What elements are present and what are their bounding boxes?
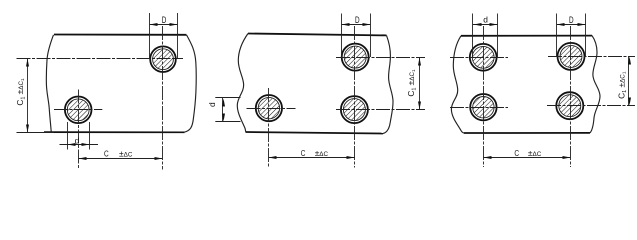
plate 3 top edge [461,35,592,37]
dimension C (panel 2) dimension line with arrows [269,157,355,159]
svg-text:C: C [514,148,519,158]
plate 1 top edge [54,34,187,36]
hole lower-left (panel 3) inner circle with hatch [473,97,494,118]
hole d (panel 2, lower left) outer circle [256,95,282,121]
hole d (panel 3, upper left) outer circle [470,44,497,71]
svg-text:D: D [355,15,360,25]
dimension C (panel 1) dimension line with arrows [79,158,163,160]
centerline horizontal hole d p2 [247,108,296,110]
centerline horizontal lower-right hole p2 / extension for C1 bottom [336,109,425,111]
dimension D (panel 2) extension lines [341,14,343,58]
svg-text:d: d [75,136,80,146]
dimension d (panel 1) extension lines [67,122,69,150]
hole d (panel 1, lower left) outer circle [65,97,92,124]
dimension C1 (panel 2) vertical dimension line with arrows [419,57,421,110]
dimension D (panel 1) dimension line with arrows [150,24,177,26]
hole lower-right (panel 3) outer circle [556,92,583,119]
plate 2 top edge [248,34,387,36]
hole d (panel 1) inner circle with hatch [67,99,89,121]
svg-text:D: D [569,15,574,25]
hole D (panel 1) inner circle with hatch [153,49,174,70]
dimension d (panel 2) dimension line with arrows [222,98,224,121]
plate 1 bottom edge [44,131,185,133]
svg-text:d: d [483,15,488,25]
svg-text:C: C [301,148,306,158]
plate 1 left break edge [46,35,53,132]
plate 3 bottom edge [464,132,590,134]
centerline vertical right holes p3 / extension for C [570,26,572,167]
dimension d (panel 2, vertical at left) extension lines [215,97,240,99]
dimension D (panel 3) dimension line with arrows [557,24,586,26]
hole lower-right (panel 2) outer circle [341,96,368,123]
hole D (panel 2) inner circle with hatch [344,46,366,68]
centerline horizontal hole d p3 [450,57,508,59]
plate 2 left break edge [237,34,248,133]
plate 3 left break edge [451,36,464,133]
dimension d (panel 3) dimension line with arrows [473,24,498,26]
centerline vertical of hole D p1 / extension for C [162,26,164,170]
extension line bottom edge for C1 (panel 1) [17,132,55,134]
dimension D (panel 3) extension lines [556,14,558,57]
centerline vertical of hole d p1 / extension for C [78,90,80,170]
hole lower-left (panel 3) outer circle [470,94,496,120]
dimension C1 (panel 1) vertical dimension line with arrows [27,59,29,133]
dimension D (panel 1) extension lines [149,13,151,59]
centerline horizontal lower-right hole p3 / extension for C1 bottom [547,105,635,107]
plate 2 bottom edge [246,132,384,134]
hole d (panel 2) inner circle with hatch [258,97,279,118]
hole lower-right (panel 2) inner circle with hatch [343,99,365,121]
hole D (panel 3) inner circle with hatch [560,45,582,67]
hole D (panel 3, upper right) outer circle [558,43,585,70]
centerline horizontal hole D p3 / extension for C1 top [548,56,635,58]
centerline horizontal of hole d p1 [54,109,102,111]
svg-text:d: d [207,102,217,107]
dimension C1 (panel 3) vertical dimension line with arrows [628,56,630,105]
dimension d (panel 1) dimension line, outside arrows [60,144,99,146]
hole D (panel 2, upper right) outer circle [342,44,369,71]
plate 2 right break edge [383,35,393,133]
dimension D (panel 2) dimension line with arrows [342,24,371,26]
dimension C (panel 3) dimension line with arrows [483,157,570,159]
centerline vertical right holes p2 / extension for C [354,26,356,168]
centerline horizontal hole D p2 / extension for C1 top [336,57,425,59]
dimension d (panel 3) extension lines [472,14,474,58]
hole D (panel 1, upper right) outer circle [150,46,176,72]
plate 1 right break edge [184,35,196,132]
hole lower-right (panel 3) inner circle with hatch [559,95,581,117]
centerline vertical left holes p3 / extension for C [483,26,485,167]
centerline horizontal of hole D p1 / extension for C1 [17,58,184,60]
svg-text:D: D [162,15,167,25]
plate 3 right break edge [590,36,600,133]
centerline vertical hole d p2 / extension for C [268,88,270,168]
svg-text:C: C [104,148,109,158]
centerline horizontal lower-left hole p3 [450,107,508,109]
hole d (panel 3) inner circle with hatch [472,46,494,68]
